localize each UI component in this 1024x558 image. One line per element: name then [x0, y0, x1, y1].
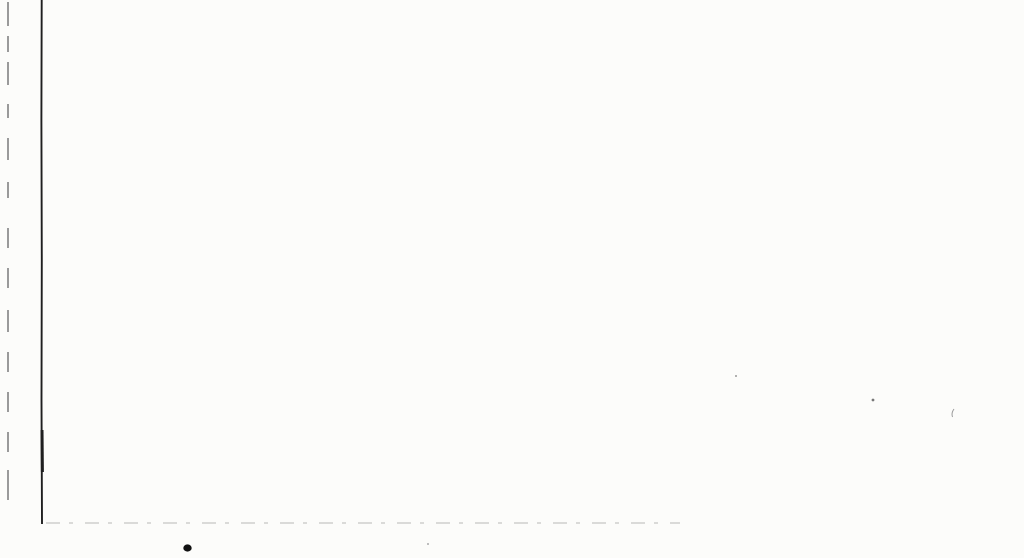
faint speck [872, 399, 875, 402]
border smudge [41, 430, 44, 472]
faded bottom border [46, 522, 680, 524]
stray speck bottom left [183, 544, 191, 551]
faint speck [735, 375, 737, 377]
faint speck [427, 543, 429, 545]
faint mark right [952, 409, 954, 417]
page edge dashed line [7, 2, 9, 500]
schematic left border line [40, 0, 43, 524]
